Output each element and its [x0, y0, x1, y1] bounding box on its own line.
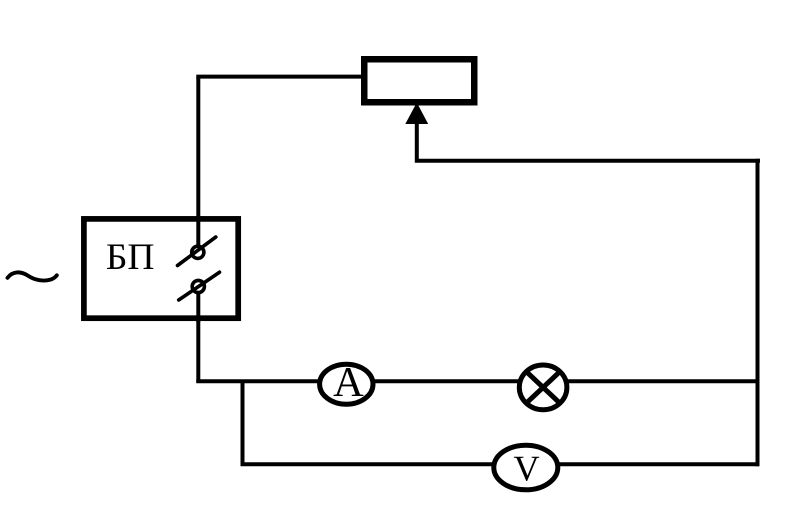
wire: box top edge to terminal 1 (inside box)	[196, 218, 200, 252]
node: junction of ammeter row and voltmeter branch	[241, 381, 245, 383]
svg-text:БП: БП	[106, 237, 155, 278]
wire: junction drop to voltmeter row	[241, 381, 245, 464]
power supply U1 box	[84, 219, 238, 318]
wire: terminal 2 to box bottom edge (inside box)	[196, 287, 200, 323]
voltmeter V	[494, 445, 558, 490]
wire: supply top terminal up to top-left corner	[196, 77, 200, 252]
wire: rheostat wiper down then right	[417, 112, 760, 161]
wire: ammeter/lamp row horizontal	[196, 379, 759, 383]
svg-text:A: A	[333, 359, 364, 406]
ammeter A	[320, 359, 373, 406]
wire: voltmeter row horizontal	[241, 462, 760, 466]
wire: supply bottom terminal down to ammeter row	[196, 287, 200, 383]
svg-text:V: V	[513, 449, 539, 489]
rheostat wiper arrowhead	[405, 103, 428, 125]
terminal 2 of power supply	[179, 272, 220, 300]
lamp	[519, 365, 567, 410]
rheostat body (variable resistor)	[364, 59, 474, 102]
wire: top horizontal to rheostat left end	[196, 75, 363, 79]
wire: right vertical side	[756, 159, 760, 467]
AC source tilde	[8, 272, 57, 280]
terminal 1 of power supply	[178, 237, 216, 266]
